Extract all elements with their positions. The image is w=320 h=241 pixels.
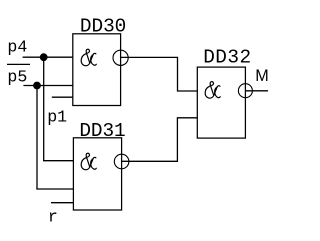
wire p5 vertical branch <box>36 86 38 190</box>
inversion bubble DD32 output <box>238 84 252 98</box>
junction p4 node <box>40 53 48 61</box>
svg-text:p1: p1 <box>47 107 67 126</box>
inversion bubble DD30 output <box>113 50 128 65</box>
svg-text:p4: p4 <box>7 38 27 57</box>
wire p4 vertical branch <box>43 57 45 161</box>
svg-text:DD31: DD31 <box>79 120 125 142</box>
wire p5 input <box>23 85 72 87</box>
wire p4 to DD31 input 1 <box>43 160 73 162</box>
junction p5 node <box>33 82 41 90</box>
AND function symbol of DD30 <box>81 49 96 65</box>
wire p4 input <box>23 56 73 58</box>
svg-text:M: M <box>255 67 268 85</box>
svg-text:p5: p5 <box>7 67 27 86</box>
wire DD30 output to DD32 input 1 <box>121 57 198 91</box>
wire p1 input stub <box>52 96 73 98</box>
wire DD31 output to DD32 input 2 <box>122 118 198 162</box>
inversion bubble DD31 output <box>114 154 129 169</box>
wire p5 to DD31 input 2 <box>36 188 73 190</box>
gate DD31 AND-NOT body <box>73 138 121 210</box>
svg-text:DD32: DD32 <box>203 47 251 69</box>
gate DD32 AND-NOT body <box>197 67 245 138</box>
svg-text:r: r <box>48 207 58 226</box>
negation overbar of p5 <box>7 63 30 65</box>
AND function symbol of DD32 <box>205 82 220 98</box>
wire M output <box>245 90 268 92</box>
gate DD30 AND-NOT body <box>73 34 121 106</box>
wire r input stub <box>51 202 73 204</box>
AND function symbol of DD31 <box>81 153 96 169</box>
